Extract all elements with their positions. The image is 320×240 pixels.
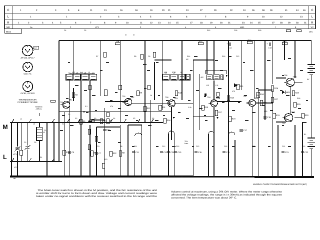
svg-text:L8: L8 xyxy=(180,71,182,74)
resistor resistor R10 xyxy=(144,106,152,111)
svg-text:11: 11 xyxy=(90,9,93,12)
svg-text:17: 17 xyxy=(190,22,193,25)
svg-text:R6: R6 xyxy=(103,119,106,122)
svg-text:L6: L6 xyxy=(88,71,90,74)
resistor resistor R29 xyxy=(294,102,302,107)
svg-text:C2: C2 xyxy=(24,141,26,144)
wire xyxy=(119,125,121,176)
svg-text:B1: B1 xyxy=(304,133,306,136)
tick below rail xyxy=(14,178,16,180)
svg-text:C7: C7 xyxy=(99,152,102,155)
svg-text:C11: C11 xyxy=(135,151,139,154)
svg-text:L11: L11 xyxy=(216,84,219,87)
svg-text:R29: R29 xyxy=(258,29,261,32)
svg-text:OC71: OC71 xyxy=(24,72,33,75)
svg-text:2: 2 xyxy=(100,16,102,19)
svg-text:C15: C15 xyxy=(236,55,239,58)
wire xyxy=(63,112,65,177)
svg-text:C9: C9 xyxy=(107,128,110,131)
svg-text:27: 27 xyxy=(272,22,275,25)
resistor resistor R9 xyxy=(137,91,143,96)
svg-text:R18: R18 xyxy=(222,55,225,58)
wire arch stub 1 xyxy=(208,134,210,176)
battery B1 upper cells xyxy=(308,65,316,75)
svg-text:AE: AE xyxy=(186,58,189,61)
wire TR4 emitter row xyxy=(193,116,214,118)
svg-text:C21: C21 xyxy=(282,145,285,148)
capacitor capacitor C20 xyxy=(167,151,175,154)
svg-text:R15: R15 xyxy=(205,106,210,109)
svg-text:47k: 47k xyxy=(110,105,113,108)
inductor osc coil L7 xyxy=(90,72,97,80)
svg-text:C11: C11 xyxy=(134,145,137,148)
svg-text:10: 10 xyxy=(126,22,129,25)
svg-text:24: 24 xyxy=(250,22,253,25)
svg-text:C5: C5 xyxy=(72,151,75,154)
wire xyxy=(100,41,102,97)
svg-text:5: 5 xyxy=(60,22,62,25)
wire xyxy=(199,74,201,130)
svg-text:16: 16 xyxy=(120,9,123,12)
svg-text:5: 5 xyxy=(68,9,70,12)
wire xyxy=(62,111,172,113)
svg-text:C19: C19 xyxy=(267,116,272,119)
wire xyxy=(289,87,291,114)
transistor TR6 OC81 xyxy=(284,76,297,87)
resistor resistor R33 xyxy=(63,150,71,155)
svg-text:46: 46 xyxy=(303,9,306,12)
resistor R39 xyxy=(119,85,122,90)
resistor R4 rail xyxy=(115,40,120,45)
svg-text:R18: R18 xyxy=(230,96,235,99)
wire aerial vert 3t xyxy=(39,123,41,128)
svg-text:3: 3 xyxy=(42,22,44,25)
wire xyxy=(294,125,296,176)
svg-text:TR7: TR7 xyxy=(282,122,285,125)
tag box T1 xyxy=(51,100,56,102)
capacitor capacitor C12 xyxy=(160,151,168,154)
resistor resistor R2 xyxy=(72,93,78,98)
wire arch 2 xyxy=(209,131,215,134)
wire xyxy=(155,59,172,61)
svg-text:25: 25 xyxy=(258,22,261,25)
svg-text:L5: L5 xyxy=(76,72,78,75)
svg-text:31: 31 xyxy=(304,22,307,25)
svg-text:R16: R16 xyxy=(207,29,210,32)
wire xyxy=(69,81,71,177)
svg-text:29: 29 xyxy=(288,22,291,25)
wire xyxy=(240,41,242,91)
switch S1 contact 4 xyxy=(66,119,69,123)
svg-text:15: 15 xyxy=(176,22,179,25)
svg-text:R19: R19 xyxy=(232,117,237,120)
resistor R12 rail xyxy=(198,40,203,45)
transformer IFT3 secondary xyxy=(213,75,219,80)
capacitor capacitor C17 xyxy=(240,129,248,132)
svg-text:C8: C8 xyxy=(148,55,150,58)
svg-text:TR4: TR4 xyxy=(207,96,210,99)
svg-text:R17: R17 xyxy=(218,111,223,114)
switch S1 contact 10 xyxy=(150,119,153,123)
capacitor capacitor C9 xyxy=(103,128,110,131)
capacitor VC1 tuning xyxy=(13,146,20,156)
svg-text:AF116, AF117: AF116, AF117 xyxy=(21,56,36,59)
wire xyxy=(149,100,151,176)
wire xyxy=(90,119,105,121)
svg-text:C12: C12 xyxy=(164,151,169,154)
svg-text:3: 3 xyxy=(55,9,57,12)
svg-text:L: L xyxy=(3,154,7,161)
resistor resistor R21 xyxy=(237,84,245,89)
wire xyxy=(258,89,272,91)
svg-text:C4: C4 xyxy=(68,113,70,116)
svg-text:2: 2 xyxy=(28,22,30,25)
resistor R4a hang xyxy=(104,52,106,57)
svg-text:2: 2 xyxy=(36,9,38,12)
resistor resistor R3 xyxy=(80,119,86,124)
svg-text:34: 34 xyxy=(243,9,246,12)
svg-text:R1: R1 xyxy=(40,156,42,159)
wire xyxy=(168,134,170,177)
resistor resistor R13 xyxy=(175,91,183,96)
wire aerial vert 3 xyxy=(39,141,41,162)
resistor R34 xyxy=(88,129,91,134)
transistor TR7 OC81 xyxy=(282,111,295,122)
svg-text:concerned. The item temperatur: concerned. The item temperature was abou… xyxy=(171,196,237,199)
wire xyxy=(162,41,164,75)
wire xyxy=(294,81,302,83)
svg-text:C4: C4 xyxy=(64,29,66,32)
svg-text:C13: C13 xyxy=(178,151,183,154)
resistor resistor R28 xyxy=(292,91,300,96)
resistor resistor R25 xyxy=(260,100,268,105)
svg-text:red: red xyxy=(34,47,37,50)
svg-text:C15: C15 xyxy=(196,145,199,148)
junction dot xyxy=(83,111,84,112)
wire xyxy=(128,124,142,126)
wire xyxy=(127,125,129,176)
svg-text:465: 465 xyxy=(201,76,204,79)
svg-text:C18: C18 xyxy=(264,110,267,113)
wire xyxy=(234,140,236,176)
resistor resistor R5 xyxy=(91,151,97,156)
wire xyxy=(104,108,106,176)
wire xyxy=(175,102,193,104)
transformer IFT1 primary xyxy=(66,72,73,80)
svg-text:C10: C10 xyxy=(104,158,107,161)
svg-text:TR1: TR1 xyxy=(60,101,63,104)
table sheet ref box xyxy=(5,29,22,34)
capacitor capacitor C15 xyxy=(194,151,202,154)
svg-text:470: 470 xyxy=(232,90,235,93)
svg-text:20: 20 xyxy=(162,9,165,12)
svg-text:R7: R7 xyxy=(96,55,98,58)
svg-text:R8: R8 xyxy=(120,145,122,148)
svg-text:12: 12 xyxy=(280,16,283,19)
svg-text:20: 20 xyxy=(220,22,223,25)
wire xyxy=(206,41,208,75)
svg-text:38: 38 xyxy=(262,9,265,12)
svg-text:S1: S1 xyxy=(62,123,64,126)
svg-text:L7: L7 xyxy=(92,72,94,75)
svg-text:C15: C15 xyxy=(198,151,203,154)
svg-text:5: 5 xyxy=(150,16,152,19)
svg-text:4: 4 xyxy=(185,26,187,29)
svg-text:30: 30 xyxy=(296,22,299,25)
svg-text:5: 5 xyxy=(215,26,217,29)
svg-text:36: 36 xyxy=(252,9,255,12)
junction dots top rail xyxy=(69,40,296,41)
label fl1 xyxy=(185,140,189,145)
svg-text:C13: C13 xyxy=(176,145,179,148)
wire xyxy=(213,41,215,75)
svg-text:3: 3 xyxy=(140,26,142,29)
svg-text:7: 7 xyxy=(90,22,92,25)
svg-text:TR5: TR5 xyxy=(243,95,246,98)
svg-text:2.2k: 2.2k xyxy=(188,106,191,109)
wire xyxy=(257,90,259,176)
svg-text:C14: C14 xyxy=(228,47,231,50)
transformer IFT2 quart xyxy=(186,74,190,80)
svg-text:39: 39 xyxy=(270,9,273,12)
resistor R20 rail xyxy=(282,40,287,45)
svg-text:19: 19 xyxy=(150,9,153,12)
wire xyxy=(253,41,255,100)
wire xyxy=(294,117,302,119)
svg-text:L: L xyxy=(311,15,313,19)
svg-text:base: base xyxy=(185,142,189,145)
wire aerial vert 1 xyxy=(17,123,19,147)
diode MR2 detector xyxy=(234,83,237,87)
transistor TR2 AF117 xyxy=(123,96,136,106)
wire xyxy=(276,121,286,123)
svg-text:29: 29 xyxy=(214,9,217,12)
wire battery bottom xyxy=(310,149,312,177)
svg-text:R: R xyxy=(7,20,10,24)
svg-text:1: 1 xyxy=(30,16,32,19)
resistor R13a hang xyxy=(153,52,155,57)
svg-text:MR1: MR1 xyxy=(309,31,313,34)
switch S1 contact 7 xyxy=(109,119,112,123)
resistor R16 rail xyxy=(247,39,252,44)
wire xyxy=(58,123,60,162)
resistor resistor R17 xyxy=(215,110,223,115)
thermistor mark xyxy=(204,94,206,96)
svg-text:23: 23 xyxy=(242,22,245,25)
table component locations xyxy=(5,6,316,29)
svg-text:C16: C16 xyxy=(226,151,231,154)
svg-text:R2: R2 xyxy=(75,94,78,97)
wire sw vert r1a xyxy=(20,123,22,151)
wire xyxy=(284,41,286,61)
switch S1 contact 9 xyxy=(137,119,140,123)
wire xyxy=(131,102,171,104)
wire switch bus M xyxy=(10,122,163,124)
svg-text:VC1: VC1 xyxy=(14,166,18,169)
wire xyxy=(58,41,60,123)
capacitor C2 trimmer xyxy=(25,145,31,150)
wire xyxy=(256,102,273,104)
svg-text:S6: S6 xyxy=(152,117,154,120)
svg-text:465: 465 xyxy=(164,71,167,74)
wire xyxy=(264,41,266,121)
resistor R36 xyxy=(102,163,105,168)
wire sw vert 5 xyxy=(53,123,55,162)
svg-text:R14: R14 xyxy=(167,119,172,122)
wire xyxy=(70,73,95,75)
svg-text:R28: R28 xyxy=(297,97,300,100)
svg-text:21: 21 xyxy=(228,22,231,25)
wire xyxy=(294,41,296,79)
svg-text:CONNECTIONS: CONNECTIONS xyxy=(18,101,39,104)
wire xyxy=(97,126,121,128)
capacitor capacitor C6 xyxy=(88,121,95,124)
svg-text:10k: 10k xyxy=(256,94,259,97)
resistor resistor R24 xyxy=(257,92,265,97)
table row entries xyxy=(18,9,307,24)
svg-text:1: 1 xyxy=(66,16,68,19)
svg-text:R32: R32 xyxy=(113,152,118,155)
wire arch 1b xyxy=(169,131,175,134)
switch S1 contact 5 xyxy=(77,119,80,123)
transformer IFT2 secondary xyxy=(171,72,178,80)
svg-text:IFT2: IFT2 xyxy=(172,71,176,74)
transformer IFT2 tert xyxy=(179,74,185,80)
resistor resistor R19 xyxy=(229,116,237,121)
svg-text:R: R xyxy=(311,20,314,24)
svg-text:L: L xyxy=(7,15,9,19)
capacitor capacitor C16 xyxy=(222,151,230,154)
wire xyxy=(89,125,91,176)
wire xyxy=(251,107,253,177)
transistor TR5 OC81D xyxy=(247,97,259,107)
svg-text:6: 6 xyxy=(75,22,77,25)
transistor TR3 AF117 xyxy=(166,97,179,107)
switch S1 contact 3 xyxy=(51,119,54,123)
svg-text:R27: R27 xyxy=(274,98,279,101)
wire bottom earth rail xyxy=(10,175,314,178)
svg-text:C16: C16 xyxy=(224,145,227,148)
capacitor capacitor C11 xyxy=(132,151,140,154)
svg-text:TR1: TR1 xyxy=(69,99,74,102)
capacitor capacitor C5 xyxy=(68,151,75,154)
svg-text:18: 18 xyxy=(200,22,203,25)
svg-text:13: 13 xyxy=(300,16,303,19)
svg-text:MURPHY CASSETTE/RADIOGRAM B/T: MURPHY CASSETTE/RADIOGRAM B/TAPE 847TR (… xyxy=(253,183,307,186)
svg-text:VC2: VC2 xyxy=(96,145,100,148)
wire xyxy=(59,111,62,113)
svg-text:+: + xyxy=(267,42,269,45)
svg-text:4: 4 xyxy=(140,16,142,19)
resistor R1 xyxy=(20,150,23,155)
resistor resistor R30 xyxy=(302,113,310,118)
paragraph notes left xyxy=(36,189,158,198)
svg-text:R9: R9 xyxy=(134,55,136,58)
svg-text:R24: R24 xyxy=(260,93,265,96)
capacitor capacitor C13 xyxy=(174,151,182,154)
wire xyxy=(213,81,215,100)
switch S1 contact 13 xyxy=(51,158,54,162)
junction dots bottom rail xyxy=(17,176,312,178)
svg-text:14: 14 xyxy=(168,22,171,25)
battery B1 lower cells xyxy=(308,138,316,149)
resistor R38 xyxy=(89,85,92,90)
svg-text:9: 9 xyxy=(115,22,117,25)
svg-text:B612: B612 xyxy=(6,30,12,33)
wire arch 1 xyxy=(135,133,142,136)
svg-text:21: 21 xyxy=(168,9,171,12)
value labels xyxy=(60,56,308,147)
svg-text:C6: C6 xyxy=(84,29,86,32)
svg-text:10: 10 xyxy=(262,16,265,19)
svg-text:1a: 1a xyxy=(30,26,33,29)
svg-text:VC1: VC1 xyxy=(13,153,17,156)
wire sw vert 4 xyxy=(46,123,48,177)
svg-text:R29: R29 xyxy=(297,103,302,106)
wire xyxy=(119,41,121,123)
svg-text:1: 1 xyxy=(18,22,20,25)
svg-text:R11: R11 xyxy=(162,106,166,109)
svg-text:taken under no-signal conditio: taken under no-signal conditions with th… xyxy=(36,195,158,198)
wire battery drop xyxy=(310,41,312,65)
table MR row entries xyxy=(30,26,297,29)
wire xyxy=(193,59,214,61)
resistor resistor R6 xyxy=(100,119,106,124)
svg-text:S2: S2 xyxy=(75,117,77,120)
wire aerial vert 1b xyxy=(17,151,19,176)
wire sw vert r1b xyxy=(20,155,22,161)
svg-text:9: 9 xyxy=(247,16,249,19)
transformer IFT3 tert xyxy=(221,75,223,80)
svg-text:44: 44 xyxy=(296,9,299,12)
paragraph notes right xyxy=(171,190,283,199)
wire xyxy=(72,41,74,75)
wire xyxy=(192,60,194,176)
inductor L1 aerial xyxy=(37,127,46,140)
svg-text:27: 27 xyxy=(200,9,203,12)
svg-text:41: 41 xyxy=(285,9,288,12)
resistor resistor R8 xyxy=(119,151,125,156)
svg-text:S5: S5 xyxy=(133,117,135,120)
svg-text:24: 24 xyxy=(186,9,189,12)
switch S1 contact 2 xyxy=(28,119,31,123)
svg-text:4: 4 xyxy=(52,22,54,25)
svg-text:R21: R21 xyxy=(240,85,245,88)
svg-text:C18: C18 xyxy=(268,47,271,50)
transistor pinout OC71 xyxy=(23,62,33,75)
svg-text:R14: R14 xyxy=(187,55,190,58)
resistor R35 xyxy=(95,136,98,141)
transistor TR1 AF117 xyxy=(61,99,74,109)
svg-text:32: 32 xyxy=(230,9,233,12)
label red spot tag xyxy=(32,46,39,49)
wire xyxy=(105,101,128,103)
wire xyxy=(213,107,215,177)
svg-text:13: 13 xyxy=(104,9,107,12)
svg-text:12: 12 xyxy=(150,22,153,25)
svg-text:1k: 1k xyxy=(150,94,152,97)
svg-text:9V: 9V xyxy=(307,78,310,81)
svg-text:C12: C12 xyxy=(162,145,165,148)
svg-text:1: 1 xyxy=(20,9,22,12)
svg-text:6: 6 xyxy=(170,16,172,19)
emitter mark TR3 xyxy=(173,117,175,119)
wire battery mid xyxy=(310,75,312,139)
capacitor C18 rail xyxy=(267,42,272,49)
wire xyxy=(181,41,183,101)
svg-text:C1: C1 xyxy=(44,129,46,132)
transistor TR4 OC71 xyxy=(209,97,221,107)
